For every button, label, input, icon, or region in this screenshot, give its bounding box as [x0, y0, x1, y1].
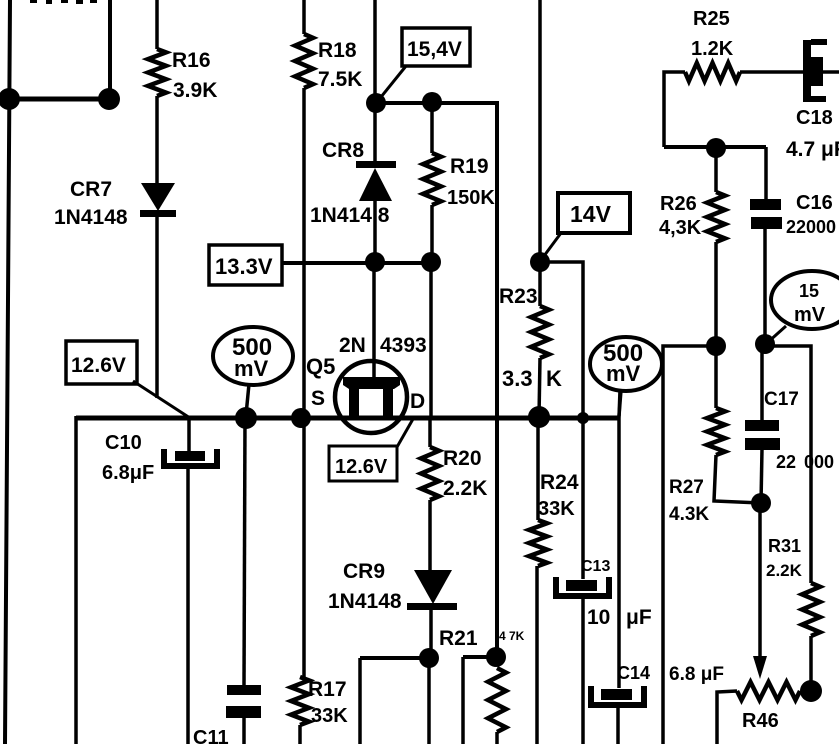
svg-text:22000: 22000 — [786, 217, 836, 237]
callout 15.4V box — [402, 28, 470, 66]
wire C11 bottom lead — [242, 717, 246, 744]
svg-text:33K: 33K — [538, 498, 575, 520]
svg-text:CR8: CR8 — [322, 139, 364, 162]
wire R16 to CR7 — [155, 96, 159, 183]
svg-text:C18: C18 — [796, 107, 833, 129]
wire 13.3V to nodes — [282, 261, 431, 265]
svg-text:C11: C11 — [193, 727, 229, 744]
wire junction left — [360, 656, 429, 660]
capacitor C16 — [750, 199, 781, 210]
node top-left junction — [0, 88, 20, 110]
node R19 bottom junction — [421, 252, 441, 272]
svg-text:C13: C13 — [581, 558, 610, 575]
wire R25 left corner — [664, 72, 685, 147]
svg-text:R23: R23 — [499, 285, 538, 308]
svg-text:R18: R18 — [318, 39, 357, 62]
resistor R16 — [148, 49, 166, 96]
wire 14V rail top — [538, 0, 542, 262]
wire R19 top junction — [422, 92, 442, 112]
resistor R46 — [737, 682, 800, 700]
node R26 bottom junction — [706, 336, 726, 356]
node top-left junction 2 — [98, 88, 120, 110]
svg-text:CR7: CR7 — [70, 178, 112, 201]
node R21 junction — [486, 647, 506, 667]
capacitor C14 — [601, 689, 632, 700]
wire 14V callout line — [541, 233, 561, 260]
resistor R24 — [529, 520, 547, 566]
resistor R25 — [685, 63, 740, 81]
wire C17 to wiper junction — [761, 449, 762, 503]
wire R17 bottom lead — [298, 725, 302, 744]
svg-text:4.3K: 4.3K — [669, 504, 709, 525]
wire gate lead Q5 — [372, 262, 376, 380]
resistor R23 — [531, 306, 549, 358]
wire C16 to junction — [763, 229, 767, 344]
resistor R20 — [421, 447, 439, 500]
wire C18 right lead — [823, 70, 839, 74]
wire drain rail — [429, 262, 433, 418]
svg-text:R26: R26 — [660, 193, 697, 215]
wire R18 top lead — [302, 0, 306, 34]
wire C10 bottom lead — [186, 469, 190, 744]
resistor R26 — [707, 192, 725, 242]
wire top box right side — [108, 0, 112, 99]
wire R19 top lead — [430, 102, 434, 153]
svg-text:15,4V: 15,4V — [407, 38, 462, 61]
node R26 top junction — [706, 138, 726, 158]
svg-text:R17: R17 — [308, 678, 347, 701]
resistor R31 — [802, 583, 820, 636]
svg-text:3.3: 3.3 — [502, 366, 533, 391]
transistor Q5 circle — [335, 361, 407, 433]
callout 500mV oval right — [590, 337, 662, 391]
svg-text:R46: R46 — [742, 710, 779, 732]
wire wiper lead — [758, 503, 762, 658]
wire CR9 to bottom junction — [429, 610, 433, 658]
node main junction x301 — [291, 408, 311, 428]
node 15.4V junction — [366, 93, 386, 113]
svg-text:R20: R20 — [443, 447, 482, 470]
svg-text:2N: 2N — [339, 334, 366, 357]
svg-text:C14: C14 — [617, 663, 650, 683]
svg-text:K: K — [546, 366, 562, 391]
wire C10 stub — [187, 418, 191, 452]
svg-text:14V: 14V — [570, 201, 612, 227]
svg-text:R31: R31 — [768, 536, 801, 556]
capacitor C17 — [745, 420, 779, 431]
svg-text:15: 15 — [799, 281, 819, 301]
svg-text:C17: C17 — [764, 389, 799, 410]
wire R20 to CR9 — [428, 500, 432, 572]
resistor R17 — [291, 677, 309, 725]
wire 500mV stem right — [619, 390, 621, 416]
svg-text:mV: mV — [606, 361, 641, 386]
svg-text:4,3K: 4,3K — [659, 217, 702, 239]
node 15mV junction — [755, 334, 775, 354]
svg-text:4 7K: 4 7K — [499, 629, 525, 643]
svg-text:C10: C10 — [105, 432, 142, 454]
wire CR8 to 13.3V node — [373, 201, 377, 262]
callout 13.3V box — [209, 245, 282, 285]
node 14V junction — [530, 252, 550, 272]
wire main left corner down — [74, 416, 78, 744]
svg-text:12.6V: 12.6V — [71, 354, 126, 377]
svg-text:000: 000 — [804, 452, 834, 472]
wire corner down x463 — [461, 657, 465, 744]
callout 14V box — [558, 193, 630, 233]
wire 500mV stem left — [246, 384, 249, 415]
wire 15.4V rail top — [373, 0, 377, 104]
callout 12.6V box left — [66, 341, 137, 384]
svg-text:12.6V: 12.6V — [335, 456, 388, 478]
wire R21 bottom lead — [495, 732, 499, 744]
node CR9 bottom junction — [419, 648, 439, 668]
svg-text:1.2K: 1.2K — [691, 38, 734, 60]
svg-text:CR9: CR9 — [343, 560, 385, 583]
svg-text:1N4148: 1N4148 — [54, 206, 128, 229]
svg-text:6.8 μF: 6.8 μF — [669, 664, 724, 685]
node wiper junction — [751, 493, 771, 513]
resistor R21 — [488, 668, 506, 732]
svg-text:1N4148: 1N4148 — [328, 590, 402, 613]
wire main horizontal — [76, 416, 619, 421]
node R46 right junction — [800, 680, 822, 702]
wire R24 bottom lead — [535, 566, 539, 744]
wire top-left horizontal — [9, 97, 109, 102]
diode CR8 — [356, 161, 396, 168]
resistor R18 — [295, 34, 313, 88]
wire 15.4V callout line — [377, 66, 406, 102]
wire 12.6V callout line — [133, 381, 190, 418]
wire R21 junction left — [463, 655, 496, 659]
svg-text:R25: R25 — [693, 8, 730, 30]
wire 15mV callout line — [767, 326, 786, 343]
svg-text:D: D — [410, 390, 425, 413]
wire R23 bottom lead — [539, 358, 540, 417]
node CR8 bottom junction — [365, 252, 385, 272]
capacitor C10 — [175, 451, 205, 461]
wire R18-R17 rail — [302, 88, 306, 677]
wire R46 left lead — [717, 691, 737, 744]
svg-text:mV: mV — [234, 356, 269, 381]
callout 500mV oval left — [213, 327, 293, 385]
diode CR7 — [141, 183, 175, 211]
wire C14 rail — [617, 418, 621, 688]
svg-text:2.2K: 2.2K — [443, 477, 487, 500]
svg-text:13.3V: 13.3V — [215, 254, 273, 279]
resistor R19 — [423, 153, 441, 205]
svg-text:150K: 150K — [447, 187, 495, 209]
wire C16 top corner — [764, 147, 768, 199]
wire junction to C17 — [760, 344, 764, 421]
transistor Q5 channel bar — [343, 377, 400, 389]
svg-text:R21: R21 — [439, 627, 478, 650]
svg-text:6.8μF: 6.8μF — [102, 462, 154, 484]
resistor R27 — [707, 408, 725, 455]
wire junction to CR8 — [373, 103, 377, 164]
svg-text:S: S — [311, 387, 325, 410]
node main junction x246 — [235, 407, 257, 429]
wire C13 bottom lead — [581, 599, 585, 744]
wire drain to R20 — [428, 418, 432, 447]
svg-text:33K: 33K — [311, 705, 348, 727]
wire oval stem to main wire — [619, 390, 620, 418]
wire y147 link — [664, 145, 766, 149]
svg-text:1N414 8: 1N414 8 — [310, 204, 390, 227]
wire R31 bottom lead — [809, 636, 813, 691]
wire R27 bottom lead — [714, 455, 761, 503]
callout 12.6V box 2 — [329, 446, 397, 481]
wire junction to R23 — [538, 262, 542, 306]
wire R19 bottom lead — [430, 205, 434, 262]
wire 15.4V feed rail — [376, 103, 497, 657]
svg-text:R27: R27 — [669, 477, 704, 498]
wire 14V box link down — [540, 262, 583, 579]
svg-text:4.7 μF: 4.7 μF — [786, 138, 839, 161]
node small crossing dot — [577, 412, 589, 424]
capacitor C18 — [803, 40, 811, 102]
wire corner down x360 — [358, 658, 362, 744]
svg-text:2.2K: 2.2K — [766, 561, 803, 580]
svg-text:Q5: Q5 — [306, 354, 335, 379]
wire CR7 to diagonal — [155, 216, 159, 398]
capacitor C11 — [227, 685, 261, 695]
svg-text:mV: mV — [794, 304, 826, 326]
svg-text:10: 10 — [587, 606, 610, 629]
transistor Q5 source leg — [349, 387, 359, 417]
top cut text remnants — [30, 0, 97, 4]
capacitor C13 — [566, 580, 597, 591]
svg-text:4393: 4393 — [380, 334, 427, 357]
svg-text:R24: R24 — [540, 471, 579, 494]
node main wire junction x539 — [528, 406, 550, 428]
svg-text:R16: R16 — [172, 49, 211, 72]
wire R25 to C18 — [740, 70, 804, 74]
wire 12.6V callout line 2 — [397, 419, 413, 447]
callout 15mV oval — [771, 271, 839, 329]
wire R26 bottom lead — [714, 242, 718, 346]
svg-text:7.5K: 7.5K — [318, 68, 362, 91]
svg-text:μF: μF — [626, 606, 652, 629]
wiper arrowhead R46 — [753, 656, 767, 679]
wire R26 top lead — [714, 148, 718, 192]
wire junction to R24 — [536, 417, 540, 520]
wire C14 bottom lead — [616, 708, 620, 744]
diode CR9 — [414, 570, 452, 604]
transistor Q5 drain leg — [383, 387, 393, 417]
wire R27 top lead — [714, 346, 718, 408]
wire 15mV node to R31 — [765, 346, 811, 583]
wire left rail — [5, 0, 10, 744]
wire R16 top lead — [155, 0, 159, 49]
wire C11 rail — [244, 418, 245, 686]
svg-text:C16: C16 — [796, 192, 833, 214]
wire junction down — [427, 658, 431, 744]
svg-text:R19: R19 — [450, 155, 489, 178]
wire right return rail — [663, 346, 716, 744]
svg-text:3.9K: 3.9K — [173, 79, 217, 102]
svg-text:22: 22 — [776, 452, 796, 472]
